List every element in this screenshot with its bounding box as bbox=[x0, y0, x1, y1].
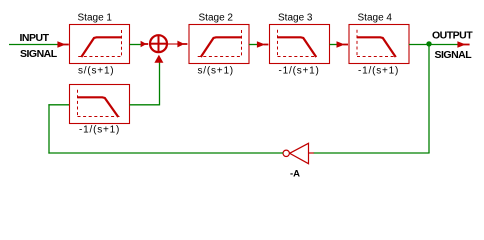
svg-text:s/(s+1): s/(s+1) bbox=[78, 66, 114, 77]
arrowhead into summer (bottom) bbox=[154, 55, 163, 63]
wire into feedback block bbox=[48, 104, 69, 106]
wire feedback left horizontal bbox=[48, 152, 283, 154]
inverter output stub bbox=[309, 152, 314, 154]
svg-text:Stage 2: Stage 2 bbox=[199, 13, 234, 24]
svg-text:SIGNAL: SIGNAL bbox=[435, 49, 473, 61]
arrowhead output bbox=[457, 41, 465, 48]
arrowhead into summer (left) bbox=[141, 41, 147, 47]
arrowhead into Stage 3 bbox=[257, 41, 265, 48]
wire up to summer bbox=[159, 59, 161, 105]
wire Stage 3 to Stage 4 bbox=[330, 44, 341, 46]
arrowhead into Stage 4 bbox=[337, 41, 345, 48]
inverter triangle -A bbox=[290, 143, 309, 163]
svg-text:-1/(s+1): -1/(s+1) bbox=[79, 125, 120, 136]
wire Stage 2 to Stage 3 bbox=[249, 44, 260, 46]
wire summer to Stage 2 bbox=[167, 43, 179, 45]
block feedback -1/(s+1) bbox=[70, 85, 130, 124]
svg-text:SIGNAL: SIGNAL bbox=[20, 48, 58, 60]
summing junction bbox=[150, 35, 167, 52]
block Stage 1 bbox=[70, 25, 130, 64]
wire Stage 1 to summer bbox=[130, 44, 143, 46]
node output dot bbox=[426, 41, 431, 46]
svg-text:Stage 4: Stage 4 bbox=[358, 13, 393, 24]
svg-text:-A: -A bbox=[290, 169, 300, 180]
arrowhead into Stage 2 bbox=[177, 41, 184, 48]
wire input lead bbox=[9, 44, 61, 46]
svg-text:s/(s+1): s/(s+1) bbox=[198, 66, 234, 77]
svg-text:INPUT: INPUT bbox=[20, 32, 50, 44]
inverter bubble bbox=[283, 150, 289, 156]
wire Stage 4 to output bbox=[409, 44, 460, 46]
block Stage 3 bbox=[270, 25, 330, 64]
block Stage 4 bbox=[349, 25, 409, 64]
svg-text:-1/(s+1): -1/(s+1) bbox=[358, 66, 399, 77]
svg-text:OUTPUT: OUTPUT bbox=[432, 29, 473, 41]
block Stage 2 bbox=[189, 25, 249, 64]
arrowhead into Stage 1 bbox=[57, 41, 65, 48]
svg-text:-1/(s+1): -1/(s+1) bbox=[279, 66, 320, 77]
svg-text:Stage 1: Stage 1 bbox=[78, 13, 113, 24]
wire output node down bbox=[428, 45, 430, 154]
wire feedback right horizontal bbox=[314, 152, 430, 154]
wire feedback block to summer bbox=[130, 104, 160, 106]
wire feedback left vertical bbox=[48, 104, 50, 153]
svg-text:Stage 3: Stage 3 bbox=[278, 13, 313, 24]
